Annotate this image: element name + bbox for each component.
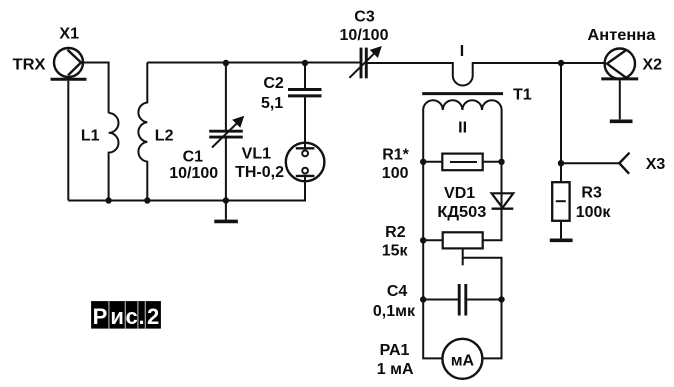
- svg-text:L1: L1: [81, 127, 100, 144]
- svg-text:и: и: [110, 304, 124, 329]
- svg-text:КД503: КД503: [437, 204, 486, 221]
- svg-text:100: 100: [382, 165, 409, 182]
- svg-text:C3: C3: [354, 9, 375, 26]
- svg-text:VD1: VD1: [444, 185, 475, 202]
- svg-text:L2: L2: [155, 127, 174, 144]
- svg-text:C1: C1: [183, 149, 204, 166]
- svg-text:2: 2: [147, 304, 159, 329]
- svg-text:II: II: [458, 119, 467, 136]
- svg-text:5,1: 5,1: [261, 95, 283, 112]
- svg-text:10/100: 10/100: [340, 27, 389, 44]
- svg-text:X2: X2: [643, 57, 663, 74]
- svg-text:T1: T1: [513, 86, 532, 103]
- svg-text:C4: C4: [387, 283, 408, 300]
- svg-text:100к: 100к: [576, 204, 612, 221]
- svg-text:15к: 15к: [382, 243, 409, 260]
- svg-text:R2: R2: [385, 224, 406, 241]
- svg-text:VL1: VL1: [242, 146, 271, 163]
- svg-text:Антенна: Антенна: [587, 27, 655, 44]
- svg-text:Р: Р: [93, 304, 108, 329]
- svg-text:I: I: [460, 43, 464, 60]
- svg-text:10/100: 10/100: [169, 165, 218, 182]
- svg-text:ТН-0,2: ТН-0,2: [235, 164, 284, 181]
- svg-text:TRX: TRX: [13, 57, 46, 74]
- svg-text:X1: X1: [59, 26, 79, 43]
- svg-text:R3: R3: [581, 185, 602, 202]
- svg-text:.: .: [139, 304, 145, 329]
- svg-text:0,1мк: 0,1мк: [373, 303, 416, 320]
- svg-text:1 мА: 1 мА: [377, 361, 414, 378]
- svg-text:мА: мА: [451, 352, 475, 369]
- svg-text:R1*: R1*: [382, 146, 409, 163]
- svg-text:РА1: РА1: [380, 342, 410, 359]
- svg-text:X3: X3: [646, 156, 666, 173]
- svg-text:C2: C2: [263, 75, 284, 92]
- svg-text:с: с: [125, 304, 137, 329]
